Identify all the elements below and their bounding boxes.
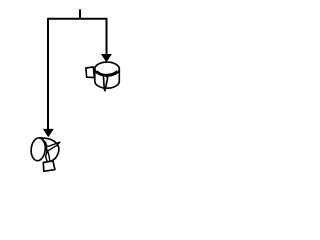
body (side walls + bottom arc) of top roll [95, 69, 120, 88]
top face ellipse of top roll [95, 62, 120, 76]
wire left vertical [47, 19, 49, 131]
flag of bottom roll [46, 142, 60, 151]
arrowhead right [101, 54, 112, 62]
crease line of bottom roll [48, 151, 50, 161]
near face ellipse of bottom roll [30, 137, 46, 161]
foot tab of bottom roll [43, 161, 55, 171]
wire right vertical [106, 19, 108, 56]
inner arc of top roll [97, 71, 116, 74]
hanging fin of top roll [103, 75, 107, 91]
body (top tangent + far rim arc) of bottom roll [40, 138, 59, 162]
tab (left) of top roll [86, 67, 94, 78]
flag tip (dark) [57, 142, 60, 145]
component: roll object top-right (top view) [86, 62, 119, 91]
wire stub at top [79, 9, 81, 19]
component: roll object bottom-left (side view) [30, 137, 60, 171]
inner arc (hole) of bottom roll [43, 140, 48, 162]
wire horizontal rail [47, 18, 107, 20]
arrowhead left [43, 129, 54, 137]
